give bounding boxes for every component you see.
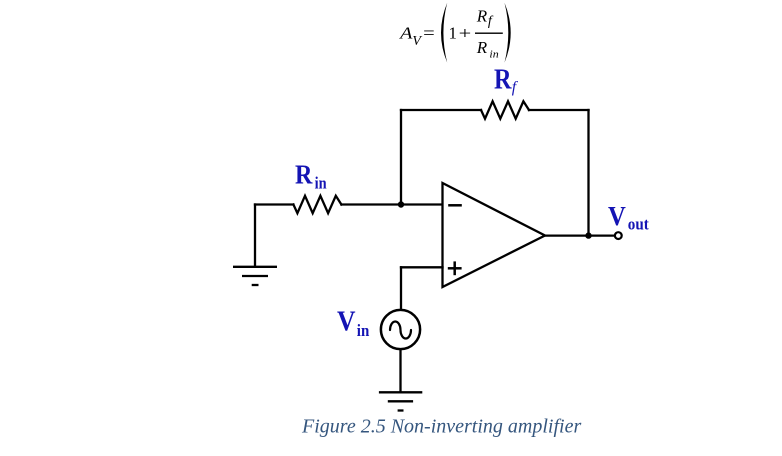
label Vout	[608, 201, 649, 233]
terminal: Vout open circle	[615, 232, 622, 239]
svg-text:V: V	[337, 306, 356, 337]
wire: feedback top-left horizontal (node A to Rf)	[401, 109, 481, 111]
label Rf value	[494, 64, 519, 95]
svg-text:=: =	[423, 24, 435, 43]
svg-text:1: 1	[449, 24, 458, 43]
svg-text:in: in	[315, 174, 327, 193]
svg-text:Figure 2.5 Non-inverting ampli: Figure 2.5 Non-inverting amplifier	[301, 416, 581, 438]
wire: input horizontal (Rin to op-amp inverting input)	[341, 203, 442, 205]
op-amp U1 triangle	[443, 183, 546, 287]
ground (bottom, source)	[379, 392, 422, 410]
wire: feedback left vertical (top corner down to node A)	[400, 110, 402, 205]
big right parenthesis	[505, 3, 511, 63]
wire: feedback right vertical (top corner down to output node)	[587, 110, 589, 236]
svg-text:f: f	[488, 14, 494, 29]
svg-text:R: R	[476, 38, 488, 57]
svg-text:out: out	[628, 214, 649, 233]
label Rin value	[295, 160, 327, 193]
wire: non-inverting input horizontal	[401, 266, 443, 268]
svg-text:V: V	[608, 201, 626, 231]
svg-text:R: R	[295, 160, 313, 190]
wire: feedback top-right horizontal (Rf to right corner)	[529, 109, 589, 111]
svg-text:R: R	[476, 7, 488, 26]
label Vin	[337, 306, 370, 340]
wire: vertical from + input down to source	[400, 267, 402, 309]
svg-text:+: +	[459, 24, 472, 43]
source V1 circle	[381, 310, 420, 349]
big left parenthesis	[441, 3, 447, 63]
op-amp minus pin label	[448, 204, 462, 207]
op-amp plus pin label	[448, 261, 462, 275]
fraction bar	[475, 33, 503, 34]
svg-text:in: in	[357, 321, 370, 340]
ground (left)	[233, 267, 277, 285]
wire: output from op-amp tip to terminal	[545, 234, 614, 236]
output node junction dot	[585, 232, 591, 238]
svg-text:R: R	[494, 64, 512, 95]
svg-text:A: A	[399, 24, 413, 43]
svg-text:V: V	[412, 34, 422, 49]
source sine symbol	[390, 322, 411, 339]
resistor Rin zigzag	[293, 196, 341, 213]
wire: left input horizontal (ground riser to Rin)	[255, 203, 293, 205]
svg-text:in: in	[489, 48, 499, 60]
wire: source bottom to ground	[399, 350, 401, 392]
wire: left vertical down to ground	[254, 205, 256, 266]
resistor Rf zigzag	[481, 101, 529, 118]
formula Av = (1 + Rf/Rin)	[399, 3, 511, 63]
svg-text:f: f	[512, 79, 519, 96]
node A junction dot (inverting input node)	[398, 201, 404, 207]
